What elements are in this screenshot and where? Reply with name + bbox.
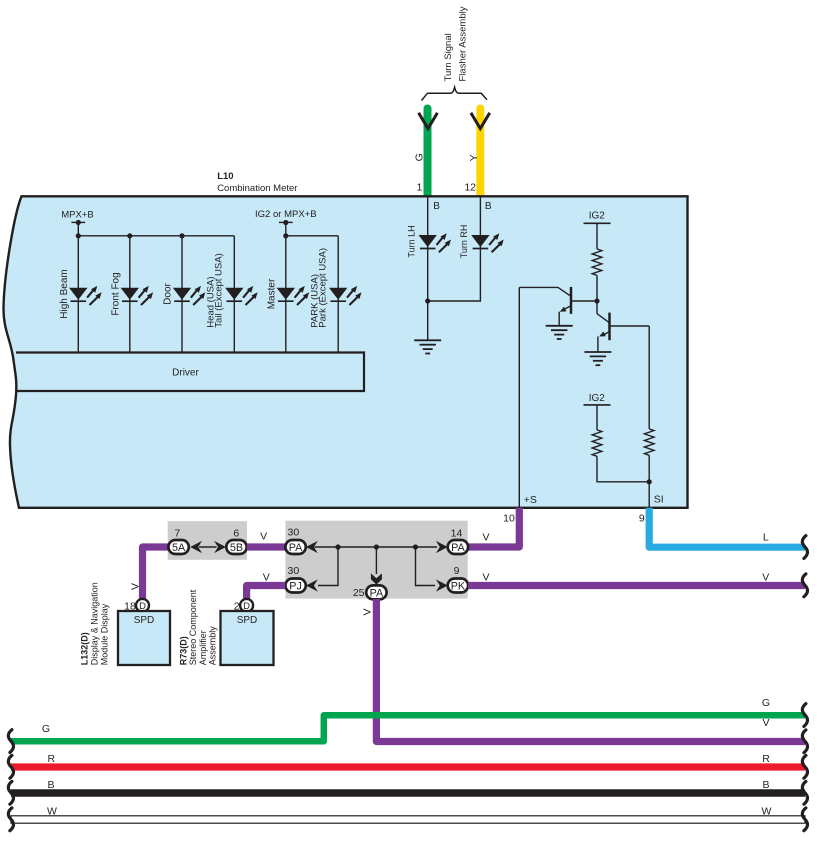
wire V from pin 10 to PA(14) (468, 508, 519, 547)
wire Y from flasher (476, 109, 484, 198)
svg-text:Master: Master (267, 278, 278, 309)
LED High Beam (69, 286, 102, 305)
node dot IG2 or MPX+B (283, 220, 288, 225)
svg-text:G: G (414, 153, 426, 161)
svg-text:Y: Y (468, 154, 480, 161)
svg-text:W: W (47, 806, 57, 818)
svg-text:MPX+B: MPX+B (61, 209, 93, 220)
wire bus2 (286, 235, 338, 237)
resistor R2 (592, 430, 602, 456)
MPX+B stub tick (71, 221, 85, 223)
connector 5B (226, 540, 246, 554)
svg-text:V: V (361, 608, 373, 615)
svg-text:G: G (42, 723, 50, 735)
svg-text:L: L (763, 531, 769, 543)
wire V from PA25 down and right (376, 599, 805, 742)
wire V from PK to right (468, 582, 805, 589)
svg-text:9: 9 (639, 512, 645, 524)
node dot j3 (413, 544, 418, 549)
wire high beam branch (77, 236, 79, 353)
ground (turn signal LEDs) (414, 340, 441, 353)
svg-text:V: V (263, 572, 270, 584)
svg-text:SPD: SPD (134, 615, 155, 626)
node dot MPX+B (76, 220, 81, 225)
svg-text:PA: PA (451, 542, 465, 554)
component L132(D) SPD box (118, 611, 170, 665)
svg-text:12: 12 (464, 182, 476, 194)
svg-text:SPD: SPD (237, 615, 258, 626)
svg-text:30: 30 (288, 527, 300, 539)
break (PK wire right) (802, 574, 807, 597)
wire V 5A to L132 (143, 547, 170, 599)
wire door branch (181, 236, 183, 353)
node dot base T1 (594, 298, 599, 303)
arrow into PJ (306, 579, 318, 591)
wire IG2 to resistor R2 (596, 405, 598, 430)
IG2 upper power bar (584, 222, 611, 224)
wire L from pin 9 (SI) (649, 508, 805, 547)
connector PA(25) (366, 585, 386, 599)
connector block PA/PJ/PK gray box (285, 521, 467, 599)
break (B left) (8, 781, 13, 804)
LED Master (277, 286, 310, 305)
svg-text:10: 10 (503, 512, 515, 524)
node dot j2 (374, 544, 379, 549)
wire j1 to PJ (318, 547, 338, 586)
svg-text:V: V (482, 571, 489, 583)
connector PJ(30) (285, 579, 305, 593)
svg-text:PK: PK (451, 580, 466, 592)
svg-text:Turn SignalFlasher Assembly: Turn SignalFlasher Assembly (443, 6, 469, 81)
arrow from flasher on Y wire (471, 113, 490, 129)
svg-text:5B: 5B (230, 542, 243, 554)
wire head/tail branch (233, 236, 235, 353)
svg-text:Driver: Driver (172, 368, 199, 379)
node: Turn Signal Flasher Assembly label (443, 6, 469, 81)
arrow from flasher on G wire (419, 113, 438, 129)
component R73(D) SPD box (221, 611, 274, 665)
arrow into PA(25) (371, 573, 382, 584)
wire MPX+B stub (77, 223, 79, 236)
svg-text:Front Fog: Front Fog (111, 272, 122, 315)
wire R2 to SI node (597, 456, 649, 482)
svg-text:V: V (762, 717, 769, 729)
LED Head/Tail (225, 286, 258, 305)
connector PA(14) (448, 540, 468, 554)
svg-text:G: G (762, 697, 770, 709)
svg-text:5A: 5A (172, 542, 186, 554)
svg-text:R: R (762, 753, 770, 765)
wire Q2 collector down (648, 326, 650, 429)
resistor R1 (592, 249, 602, 275)
svg-text:SI: SI (654, 494, 664, 506)
wire bus1 (78, 235, 234, 237)
wire pin12 to Turn RH (479, 197, 481, 249)
wire R1 to node (596, 275, 598, 313)
wire B bottom (11, 789, 805, 797)
break (W left) (8, 808, 13, 831)
node dot bus1 front fog (127, 233, 132, 238)
LED Door (173, 286, 206, 305)
svg-text:High Beam: High Beam (59, 269, 70, 318)
break (G left) (8, 730, 13, 753)
svg-text:PA: PA (370, 587, 384, 599)
svg-text:IG2 or MPX+B: IG2 or MPX+B (255, 209, 317, 220)
svg-text:PJ: PJ (289, 580, 302, 592)
LED Park (329, 286, 362, 305)
wire Turn RH cathode down (428, 249, 481, 302)
wire G from flasher (424, 109, 432, 198)
node dot j1 (335, 544, 340, 549)
node dot turn cathodes (425, 298, 430, 303)
break (R right) (802, 755, 807, 778)
svg-text:W: W (762, 806, 772, 818)
connector D (L132) (136, 599, 149, 612)
wire pin1 to Turn LH (427, 197, 429, 249)
LED Turn LH (419, 233, 452, 252)
svg-text:+S: +S (524, 494, 537, 506)
wire park branch (337, 236, 339, 353)
combination meter box L10 (3, 196, 687, 508)
wire Q1 collector to +S pin (518, 287, 520, 507)
IG2 or MPX+B stub tick (279, 221, 293, 223)
svg-text:R73(D)Stereo ComponentAmplifie: R73(D)Stereo ComponentAmplifierAssembly (178, 589, 217, 665)
arrow into PA(14) (436, 541, 448, 553)
svg-text:R: R (48, 753, 56, 765)
connector PK(9) (448, 579, 468, 593)
wire R3 to SI pin (648, 455, 650, 508)
svg-text:25: 25 (353, 587, 365, 599)
svg-text:B: B (433, 201, 440, 212)
wire V R73 to PJ (247, 586, 286, 599)
wire IG2 to resistor R1 (596, 223, 598, 249)
transistor Q2 (597, 313, 649, 352)
break (B right) (802, 781, 807, 804)
svg-text:V: V (482, 532, 489, 544)
node dot bus1 door (179, 233, 184, 238)
svg-text:7: 7 (174, 528, 180, 540)
ground (Q1 emitter) (546, 326, 573, 339)
wire Turn LH cathode down (427, 249, 429, 341)
svg-text:6: 6 (233, 528, 239, 540)
svg-text:L132(D)Display & NavigationMod: L132(D)Display & NavigationModule Displa… (80, 582, 110, 665)
node dot bus2 master (283, 233, 288, 238)
break (R left) (8, 755, 13, 778)
wire W bottom (11, 816, 805, 823)
wire j2 to PA25 (375, 547, 377, 574)
IG2 lower power bar (584, 404, 611, 406)
LED Turn RH (471, 233, 504, 252)
transistor Q1 (519, 287, 597, 326)
svg-text:9: 9 (454, 565, 460, 577)
svg-text:B: B (47, 779, 54, 791)
node dot SI (647, 479, 652, 484)
wire R bottom (11, 763, 805, 770)
wire V 5B to PA (247, 543, 286, 550)
wire front fog branch (129, 236, 131, 353)
wire PA30 to PA14 (315, 546, 438, 548)
connector block 5A/5B gray box (168, 521, 247, 560)
break (L wire right) (802, 536, 807, 559)
wire j3 to PK (416, 547, 436, 586)
break (V bottom right) (802, 730, 807, 753)
connector PA(30) (285, 540, 305, 554)
arrow into PA(30) (306, 541, 318, 553)
wire master branch (285, 236, 287, 353)
svg-text:Door: Door (163, 282, 174, 304)
svg-text:IG2: IG2 (589, 393, 606, 404)
connector D (R73) (240, 599, 253, 612)
svg-text:V: V (260, 530, 267, 542)
svg-text:1: 1 (416, 182, 422, 194)
svg-text:V: V (129, 583, 141, 590)
node dot bus1 left (76, 233, 81, 238)
component L10 header (217, 171, 297, 194)
svg-text:30: 30 (288, 565, 300, 577)
break (W right) (802, 808, 807, 831)
brace (422, 87, 488, 100)
svg-text:B: B (485, 201, 492, 212)
svg-text:PA: PA (289, 542, 303, 554)
arrow into PK (436, 579, 448, 591)
svg-text:V: V (762, 571, 769, 583)
svg-text:B: B (762, 779, 769, 791)
svg-text:IG2: IG2 (589, 211, 606, 222)
connector joint arrows 5A-5B (190, 541, 226, 553)
connector 5A (168, 540, 188, 554)
wire G bottom (11, 715, 805, 741)
svg-text:Combination Meter: Combination Meter (217, 183, 297, 194)
svg-text:14: 14 (451, 528, 463, 540)
svg-text:Turn RH: Turn RH (459, 225, 469, 259)
svg-text:L10: L10 (217, 171, 233, 182)
driver box (16, 353, 364, 392)
resistor R3 (644, 429, 654, 455)
LED Front Fog (121, 286, 154, 305)
svg-text:Turn LH: Turn LH (407, 225, 417, 257)
wire IG2 stub (285, 223, 287, 236)
ground (Q2 emitter) (584, 352, 611, 365)
break (G right) (802, 704, 807, 727)
